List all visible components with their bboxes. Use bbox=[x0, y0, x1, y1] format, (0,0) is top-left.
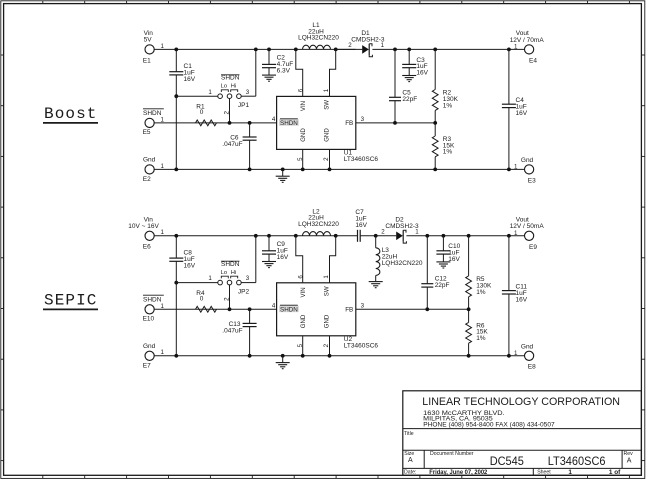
svg-text:1%: 1% bbox=[476, 335, 486, 342]
terminal E7 Gnd bbox=[145, 351, 154, 360]
svg-text:10V ~ 16V: 10V ~ 16V bbox=[128, 223, 159, 230]
svg-text:SEPIC: SEPIC bbox=[44, 291, 98, 309]
ground symbol below U2 bbox=[282, 356, 284, 363]
svg-text:1: 1 bbox=[161, 303, 165, 310]
diode D1 CMDSH2-3 schottky bbox=[362, 45, 369, 54]
svg-text:1: 1 bbox=[161, 116, 165, 123]
svg-text:Gnd: Gnd bbox=[143, 157, 156, 164]
svg-text:16V: 16V bbox=[277, 254, 289, 261]
svg-text:16V: 16V bbox=[516, 110, 528, 117]
svg-text:Gnd: Gnd bbox=[143, 343, 156, 350]
svg-text:SW: SW bbox=[323, 286, 330, 296]
terminal E10 SHDN bbox=[145, 305, 154, 314]
capacitor C2 4.7uF 6.3V with ground bbox=[268, 49, 270, 64]
terminal E4 Vout bbox=[525, 45, 534, 54]
svg-text:SHDN: SHDN bbox=[280, 306, 298, 313]
wire JP2 pin3 riser to Vin rail bbox=[241, 282, 256, 284]
svg-text:2: 2 bbox=[323, 343, 330, 347]
wire U1 SW pin jog from inductor bbox=[330, 49, 336, 96]
svg-text:Date:: Date: bbox=[404, 470, 416, 476]
svg-text:DC545: DC545 bbox=[490, 454, 525, 468]
wire FB line bbox=[356, 122, 435, 124]
svg-text:1: 1 bbox=[568, 469, 572, 476]
svg-text:Document Number: Document Number bbox=[430, 451, 474, 457]
svg-text:1: 1 bbox=[514, 230, 518, 237]
svg-text:SW: SW bbox=[323, 100, 330, 110]
wire JP2 pin2 to SHDN line bbox=[229, 285, 231, 309]
svg-text:VIN: VIN bbox=[300, 101, 307, 111]
border tick marks top and bottom bbox=[42, 1, 44, 4]
svg-text:5: 5 bbox=[297, 343, 304, 347]
capacitor C7 1uF 16V coupling bbox=[357, 230, 359, 242]
svg-text:16V: 16V bbox=[448, 256, 460, 263]
svg-text:E3: E3 bbox=[528, 177, 536, 184]
wire L1 to diode D1 anode bbox=[336, 48, 363, 50]
title block column lines bbox=[423, 450, 425, 468]
svg-text:1: 1 bbox=[514, 44, 518, 51]
svg-text:LT3460SC6: LT3460SC6 bbox=[344, 342, 379, 349]
svg-text:LT3460SC6: LT3460SC6 bbox=[548, 454, 606, 468]
svg-text:Hi: Hi bbox=[231, 84, 236, 90]
svg-text:16V: 16V bbox=[516, 296, 528, 303]
jumper JP1 SHDN select bbox=[218, 94, 223, 99]
capacitor C13 .047uF bbox=[249, 309, 251, 323]
svg-text:2: 2 bbox=[224, 111, 231, 115]
inductor L2 22uH LQH32CN220 bbox=[303, 232, 331, 236]
capacitor C10 1uF 16V output bypass with ground bbox=[442, 236, 444, 251]
inductor L3 22uH LQH32CN220 to ground bbox=[375, 236, 377, 248]
wire C7 to D2 anode bbox=[360, 235, 396, 237]
wire U1 GND pin 2 bbox=[329, 149, 331, 169]
svg-text:2: 2 bbox=[323, 157, 330, 161]
svg-text:2: 2 bbox=[381, 229, 385, 236]
terminal E2 Gnd bbox=[145, 165, 154, 174]
svg-text:E10: E10 bbox=[143, 316, 155, 323]
svg-text:3: 3 bbox=[361, 116, 365, 123]
capacitor C8 1uF 16V input bypass bbox=[175, 236, 177, 258]
svg-text:LQH32CN220: LQH32CN220 bbox=[298, 35, 339, 42]
border tick marks left and right bbox=[1, 54, 4, 56]
svg-text:E5: E5 bbox=[143, 129, 151, 136]
wire SHDN line bbox=[154, 308, 276, 310]
svg-text:1: 1 bbox=[208, 89, 212, 96]
capacitor C12 22pF feed-forward bbox=[426, 236, 428, 284]
resistor R4 0 ohm bbox=[196, 306, 217, 312]
svg-text:1: 1 bbox=[161, 349, 165, 356]
terminal E5 SHDN bbox=[145, 118, 154, 127]
terminal E6 Vin bbox=[145, 231, 154, 240]
svg-text:PHONE (408) 954-8400 FAX (408: PHONE (408) 954-8400 FAX (408) 434-0507 bbox=[423, 422, 555, 429]
wire JP2 pin1 to C8 gnd branch bbox=[176, 282, 218, 284]
wire U2 GND pin 5 bbox=[302, 336, 304, 356]
svg-text:A: A bbox=[627, 457, 632, 464]
svg-text:SHDN: SHDN bbox=[221, 261, 240, 268]
svg-text:LT3460SC6: LT3460SC6 bbox=[344, 156, 379, 163]
inductor L1 22uH LQH32CN220 bbox=[303, 45, 331, 49]
wire C8 to gnd rail bbox=[174, 281, 178, 285]
svg-text:E1: E1 bbox=[143, 57, 151, 64]
svg-text:E6: E6 bbox=[143, 244, 151, 251]
svg-text:1: 1 bbox=[208, 275, 212, 282]
svg-text:3: 3 bbox=[361, 303, 365, 310]
wire U1 GND pin 5 bbox=[302, 149, 304, 169]
svg-text:E4: E4 bbox=[529, 57, 537, 64]
svg-text:GND: GND bbox=[323, 128, 330, 142]
svg-text:E9: E9 bbox=[529, 244, 537, 251]
svg-text:SHDN: SHDN bbox=[143, 110, 162, 117]
svg-text:.047uF: .047uF bbox=[222, 141, 242, 148]
capacitor C5 22pF feed-forward bbox=[394, 49, 396, 97]
title block row lines bbox=[403, 428, 642, 430]
svg-text:1: 1 bbox=[381, 42, 385, 49]
svg-text:1%: 1% bbox=[476, 289, 486, 296]
resistor R6 15K 1% bbox=[468, 309, 470, 322]
svg-text:Friday, June 07, 2002: Friday, June 07, 2002 bbox=[429, 469, 487, 476]
svg-text:2: 2 bbox=[224, 297, 231, 301]
wire Vin rail sepic bbox=[154, 235, 357, 237]
svg-text:FB: FB bbox=[345, 120, 353, 127]
wire Vin rail boost bbox=[154, 48, 356, 50]
resistor R3 15K 1% bbox=[434, 123, 436, 136]
svg-text:1: 1 bbox=[323, 275, 330, 279]
wire SHDN line bbox=[154, 122, 276, 124]
svg-text:VIN: VIN bbox=[300, 287, 307, 297]
svg-text:1: 1 bbox=[161, 43, 165, 50]
wire Gnd rail boost bbox=[154, 168, 524, 170]
svg-text:.047uF: .047uF bbox=[222, 327, 242, 334]
wire JP1 pin3 riser to Vin rail bbox=[241, 95, 256, 97]
resistor R1 0 ohm bbox=[196, 120, 217, 126]
wire JP1 pin1 to C1 gnd branch bbox=[176, 95, 218, 97]
svg-text:Lo: Lo bbox=[221, 270, 227, 276]
ground symbol below U1 bbox=[282, 169, 284, 176]
svg-text:Sheet: Sheet bbox=[537, 470, 551, 476]
svg-text:JP2: JP2 bbox=[238, 288, 250, 295]
svg-text:1: 1 bbox=[415, 229, 419, 236]
svg-text:4: 4 bbox=[272, 116, 276, 123]
wire JP1 pin2 to SHDN line bbox=[229, 99, 231, 123]
svg-text:4: 4 bbox=[272, 303, 276, 310]
svg-text:SHDN: SHDN bbox=[143, 296, 162, 303]
svg-text:Boost: Boost bbox=[44, 105, 98, 123]
svg-text:GND: GND bbox=[300, 128, 307, 142]
svg-text:Gnd: Gnd bbox=[521, 343, 534, 350]
svg-text:Lo: Lo bbox=[221, 84, 227, 90]
svg-text:16V: 16V bbox=[184, 262, 196, 269]
svg-text:16V: 16V bbox=[355, 222, 367, 229]
terminal E1 Vin bbox=[145, 45, 154, 54]
svg-text:A: A bbox=[408, 457, 413, 464]
svg-text:5V: 5V bbox=[144, 36, 153, 43]
svg-text:SHDN: SHDN bbox=[221, 75, 240, 82]
svg-text:16V: 16V bbox=[416, 70, 428, 77]
terminal E8 Gnd bbox=[525, 351, 534, 360]
terminal E9 Vout bbox=[525, 231, 534, 240]
wire U1 VIN pin jog from inductor bbox=[296, 49, 303, 96]
IC U1 LT3460SC6 bbox=[277, 96, 356, 149]
capacitor C1 1uF 16V input bypass bbox=[175, 49, 177, 71]
svg-text:GND: GND bbox=[300, 314, 307, 328]
jumper JP2 SHDN select bbox=[218, 280, 223, 285]
resistor R2 130K 1% bbox=[434, 49, 436, 89]
wire U2 SW pin jog from inductor bbox=[330, 236, 336, 283]
svg-text:Hi: Hi bbox=[231, 270, 236, 276]
wire Gnd rail sepic bbox=[154, 355, 524, 357]
svg-text:1: 1 bbox=[323, 88, 330, 92]
svg-text:6: 6 bbox=[297, 275, 304, 279]
capacitor C4 1uF 16V output bbox=[508, 49, 510, 104]
svg-text:LQH32CN220: LQH32CN220 bbox=[298, 221, 339, 228]
svg-text:1: 1 bbox=[161, 163, 165, 170]
svg-text:Rev: Rev bbox=[624, 451, 634, 457]
resistor R5 130K 1% bbox=[468, 236, 470, 276]
svg-text:2: 2 bbox=[348, 42, 352, 49]
svg-text:SHDN: SHDN bbox=[280, 120, 298, 127]
svg-text:6: 6 bbox=[297, 88, 304, 92]
svg-text:FB: FB bbox=[345, 306, 353, 313]
capacitor C3 1uF 16V output bypass with ground bbox=[408, 49, 410, 64]
title block outline bbox=[403, 391, 642, 476]
svg-text:Title: Title bbox=[404, 431, 414, 437]
svg-text:Gnd: Gnd bbox=[521, 157, 534, 164]
svg-text:GND: GND bbox=[323, 314, 330, 328]
svg-text:LINEAR TECHNOLOGY CORPORATION: LINEAR TECHNOLOGY CORPORATION bbox=[422, 396, 620, 408]
capacitor C6 .047uF bbox=[249, 123, 251, 137]
svg-text:1 of: 1 of bbox=[609, 469, 621, 476]
svg-text:LQH32CN220: LQH32CN220 bbox=[382, 260, 423, 267]
svg-text:0: 0 bbox=[200, 295, 204, 302]
capacitor C9 1uF 16V with ground bbox=[268, 236, 270, 251]
svg-text:1%: 1% bbox=[443, 149, 453, 156]
svg-text:0: 0 bbox=[200, 109, 204, 116]
wire D1 cathode to Vout rail bbox=[372, 48, 524, 50]
svg-text:5: 5 bbox=[297, 157, 304, 161]
svg-text:6.3V: 6.3V bbox=[277, 67, 291, 74]
svg-text:JP1: JP1 bbox=[238, 102, 250, 109]
svg-text:1%: 1% bbox=[443, 102, 453, 109]
svg-text:CMDSH2-3: CMDSH2-3 bbox=[385, 223, 419, 230]
svg-text:16V: 16V bbox=[184, 76, 196, 83]
wire FB line bbox=[356, 308, 469, 310]
svg-text:3: 3 bbox=[246, 275, 250, 282]
wire D2 cathode to Vout rail bbox=[406, 235, 524, 237]
svg-text:E8: E8 bbox=[528, 364, 536, 371]
wire C1 to gnd rail bbox=[174, 94, 178, 98]
svg-text:E7: E7 bbox=[143, 362, 151, 369]
IC U2 LT3460SC6 bbox=[277, 283, 356, 336]
svg-text:E2: E2 bbox=[143, 176, 151, 183]
svg-text:22pF: 22pF bbox=[402, 96, 417, 103]
terminal E3 Gnd bbox=[525, 165, 534, 174]
diode D2 CMDSH2-3 schottky bbox=[396, 232, 403, 241]
svg-text:3: 3 bbox=[246, 89, 250, 96]
svg-text:1: 1 bbox=[161, 229, 165, 236]
capacitor C11 1uF 16V output bbox=[508, 236, 510, 291]
svg-text:22pF: 22pF bbox=[435, 282, 450, 289]
wire U2 GND pin 2 bbox=[329, 336, 331, 356]
wire U2 VIN pin jog from inductor bbox=[296, 236, 303, 283]
